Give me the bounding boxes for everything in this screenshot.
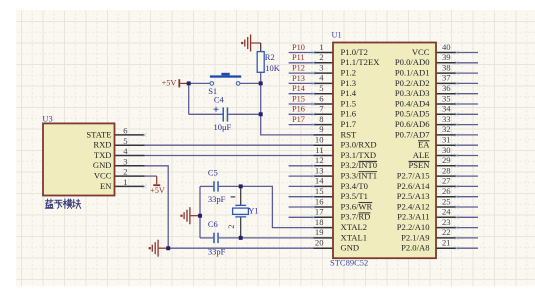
svg-text:P3.5/T1: P3.5/T1: [341, 191, 368, 201]
svg-text:XTAL2: XTAL2: [341, 222, 368, 232]
svg-text:P17: P17: [292, 115, 305, 124]
svg-text:GND: GND: [93, 160, 112, 170]
svg-text:P3.4/T0: P3.4/T0: [341, 181, 368, 191]
svg-text:18: 18: [315, 217, 324, 227]
svg-text:29: 29: [442, 155, 451, 165]
svg-text:EN: EN: [100, 181, 112, 191]
svg-text:P2.7/A15: P2.7/A15: [397, 171, 430, 181]
svg-text:17: 17: [315, 207, 324, 217]
svg-text:33: 33: [442, 114, 451, 124]
svg-text:39: 39: [442, 52, 451, 62]
svg-text:VCC: VCC: [412, 47, 430, 57]
svg-text:P3.0/RXD: P3.0/RXD: [341, 140, 377, 150]
svg-text:P0.6/AD6: P0.6/AD6: [395, 119, 430, 129]
svg-text:P2.1/A9: P2.1/A9: [401, 232, 429, 242]
svg-text:35: 35: [442, 93, 451, 103]
svg-text:10K: 10K: [265, 63, 281, 73]
svg-text:10μF: 10μF: [214, 122, 232, 132]
svg-text:C6: C6: [208, 219, 218, 229]
svg-text:P14: P14: [292, 84, 306, 93]
svg-text:33pF: 33pF: [208, 246, 226, 256]
svg-text:36: 36: [442, 83, 451, 93]
svg-text:P1.4: P1.4: [341, 88, 357, 98]
svg-text:12: 12: [315, 155, 324, 165]
svg-text:ALE: ALE: [413, 150, 430, 160]
svg-text:P0.4/AD4: P0.4/AD4: [395, 98, 430, 108]
svg-text:P15: P15: [292, 94, 305, 103]
svg-text:5: 5: [319, 83, 323, 93]
svg-text:C4: C4: [214, 94, 225, 104]
svg-text:VCC: VCC: [94, 171, 112, 181]
svg-text:P2.3/A11: P2.3/A11: [397, 212, 429, 222]
svg-text:P0.2/AD2: P0.2/AD2: [395, 78, 430, 88]
svg-text:24: 24: [442, 207, 451, 217]
svg-text:+5V: +5V: [150, 186, 165, 195]
svg-text:7: 7: [319, 104, 324, 114]
svg-text:15: 15: [315, 186, 324, 196]
svg-text:P2.4/A12: P2.4/A12: [397, 201, 430, 211]
svg-text:TXD: TXD: [94, 150, 112, 160]
svg-text:P1.5: P1.5: [341, 98, 357, 108]
svg-text:3: 3: [319, 62, 323, 72]
svg-text:1: 1: [123, 177, 127, 187]
svg-text:19: 19: [315, 227, 324, 237]
svg-text:STC89C52: STC89C52: [330, 258, 368, 268]
svg-text:22: 22: [442, 227, 451, 237]
svg-text:P0.5/AD5: P0.5/AD5: [395, 109, 430, 119]
svg-text:33pF: 33pF: [208, 194, 226, 204]
svg-text:R2: R2: [265, 52, 275, 62]
svg-text:6: 6: [319, 93, 324, 103]
svg-text:11: 11: [315, 145, 323, 155]
svg-text:P0.0/AD0: P0.0/AD0: [395, 57, 430, 67]
svg-text:GND: GND: [341, 243, 360, 253]
svg-text:RXD: RXD: [93, 140, 111, 150]
svg-text:P1.2: P1.2: [341, 68, 357, 78]
svg-text:P1.7: P1.7: [341, 119, 357, 129]
svg-text:6: 6: [123, 126, 128, 136]
svg-text:8: 8: [319, 114, 323, 124]
svg-text:26: 26: [442, 186, 451, 196]
svg-text:3: 3: [123, 156, 127, 166]
svg-text:25: 25: [442, 196, 451, 206]
svg-text:P0.1/AD1: P0.1/AD1: [395, 68, 430, 78]
svg-text:P3.1/TXD: P3.1/TXD: [341, 150, 377, 160]
svg-text:16: 16: [315, 196, 324, 206]
svg-text:4: 4: [319, 73, 324, 83]
svg-text:10: 10: [315, 135, 324, 145]
svg-text:20: 20: [315, 238, 324, 248]
svg-text:34: 34: [442, 104, 451, 114]
svg-text:2: 2: [319, 52, 323, 62]
svg-text:C5: C5: [208, 167, 218, 177]
svg-text:P2.0/A8: P2.0/A8: [401, 243, 429, 253]
svg-text:30: 30: [442, 145, 451, 155]
svg-text:RST: RST: [341, 129, 358, 139]
svg-text:32: 32: [442, 124, 451, 134]
svg-text:STATE: STATE: [86, 129, 111, 139]
svg-text:P13: P13: [292, 74, 305, 83]
svg-text:XTAL1: XTAL1: [341, 232, 368, 242]
svg-text:P1.1/T2EX: P1.1/T2EX: [341, 57, 381, 67]
svg-text:P2.6/A14: P2.6/A14: [397, 181, 430, 191]
svg-text:P1.6: P1.6: [341, 109, 357, 119]
svg-text:P2.2/A10: P2.2/A10: [397, 222, 430, 232]
svg-text:2: 2: [123, 167, 127, 177]
svg-text:13: 13: [315, 165, 324, 175]
svg-text:P12: P12: [292, 64, 305, 73]
svg-text:21: 21: [442, 238, 451, 248]
svg-text:P0.3/AD3: P0.3/AD3: [395, 88, 430, 98]
svg-text:38: 38: [442, 62, 451, 72]
svg-text:9: 9: [319, 124, 323, 134]
svg-text:14: 14: [315, 176, 324, 186]
svg-text:P16: P16: [292, 105, 305, 114]
svg-text:27: 27: [442, 176, 451, 186]
svg-text:5: 5: [123, 136, 127, 146]
svg-text:28: 28: [442, 165, 451, 175]
svg-text:2: 2: [226, 225, 236, 229]
svg-text:U1: U1: [332, 31, 342, 40]
svg-text:+5V: +5V: [162, 79, 177, 88]
svg-text:23: 23: [442, 217, 451, 227]
svg-text:37: 37: [442, 73, 451, 83]
svg-text:1: 1: [319, 42, 323, 52]
svg-text:P2.5/A13: P2.5/A13: [397, 191, 430, 201]
svg-text:P1.0/T2: P1.0/T2: [341, 47, 368, 57]
svg-text:P11: P11: [292, 53, 305, 62]
svg-text:40: 40: [442, 42, 451, 52]
svg-text:P10: P10: [292, 43, 305, 52]
svg-text:Y1: Y1: [248, 206, 258, 216]
svg-text:P0.7/AD7: P0.7/AD7: [395, 129, 430, 139]
svg-text:U3: U3: [42, 115, 52, 124]
svg-text:4: 4: [123, 146, 128, 156]
svg-text:P1.3: P1.3: [341, 78, 357, 88]
svg-text:31: 31: [442, 135, 451, 145]
